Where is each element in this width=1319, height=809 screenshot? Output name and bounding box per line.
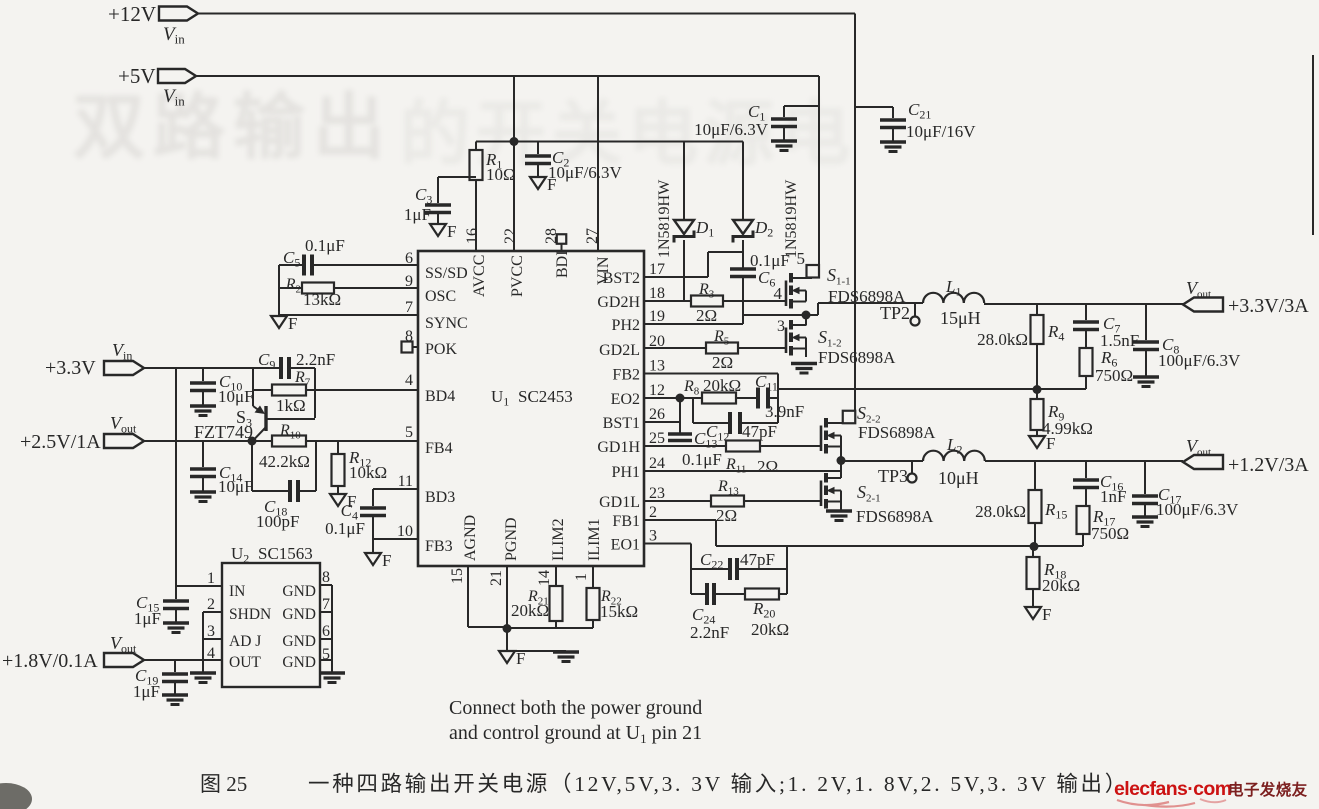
svg-text:SYNC: SYNC [425, 315, 468, 332]
svg-text:1N5819HW: 1N5819HW [783, 179, 800, 258]
svg-text:42.2kΩ: 42.2kΩ [259, 452, 310, 471]
svg-text:1N5819HW: 1N5819HW [656, 179, 673, 258]
svg-text:POK: POK [425, 341, 457, 358]
svg-text:4: 4 [405, 372, 413, 389]
svg-text:22: 22 [502, 228, 519, 244]
svg-text:19: 19 [649, 308, 665, 325]
svg-text:9: 9 [405, 273, 413, 290]
svg-text:SHDN: SHDN [229, 606, 271, 623]
svg-text:PVCC: PVCC [509, 255, 526, 297]
svg-text:BD3: BD3 [425, 489, 455, 506]
svg-text:3: 3 [207, 623, 215, 640]
svg-text:1μF: 1μF [133, 682, 160, 701]
svg-text:1nF: 1nF [1100, 487, 1126, 506]
svg-text:7: 7 [322, 596, 330, 613]
svg-text:FDS6898A: FDS6898A [856, 507, 934, 526]
svg-text:100μF/6.3V: 100μF/6.3V [1156, 500, 1239, 519]
svg-text:23: 23 [649, 485, 665, 502]
svg-text:2: 2 [649, 504, 657, 521]
svg-text:10: 10 [397, 523, 413, 540]
svg-text:FB1: FB1 [612, 513, 640, 530]
svg-text:GD1L: GD1L [599, 494, 640, 511]
svg-text:8: 8 [322, 569, 330, 586]
svg-text:图 25: 图 25 [200, 772, 247, 796]
svg-text:25: 25 [649, 430, 665, 447]
svg-text:BST1: BST1 [603, 415, 640, 432]
svg-text:10μF/6.3V: 10μF/6.3V [548, 163, 623, 182]
svg-text:12: 12 [649, 382, 665, 399]
svg-text:100μF/6.3V: 100μF/6.3V [1158, 351, 1241, 370]
svg-text:2Ω: 2Ω [757, 457, 778, 476]
svg-text:GD2L: GD2L [599, 342, 640, 359]
svg-text:+1.8V/0.1A: +1.8V/0.1A [2, 650, 98, 672]
svg-text:FZT749: FZT749 [194, 422, 253, 442]
svg-text:47pF: 47pF [740, 550, 775, 569]
svg-text:GND: GND [282, 633, 316, 650]
svg-text:BDI: BDI [554, 250, 571, 278]
svg-text:5: 5 [797, 249, 806, 268]
svg-text:TP3: TP3 [878, 466, 908, 486]
svg-text:BD4: BD4 [425, 388, 455, 405]
svg-text:10μF: 10μF [218, 387, 254, 406]
svg-text:3: 3 [777, 318, 785, 335]
svg-text:20kΩ: 20kΩ [511, 601, 549, 620]
svg-text:GND: GND [282, 606, 316, 623]
svg-text:ILIM1: ILIM1 [586, 518, 603, 561]
svg-text:2: 2 [207, 596, 215, 613]
svg-text:20: 20 [649, 333, 665, 350]
svg-text:10μF: 10μF [218, 477, 254, 496]
svg-text:11: 11 [398, 473, 413, 490]
svg-text:3: 3 [649, 528, 657, 545]
svg-text:5: 5 [322, 646, 330, 663]
svg-text:AVCC: AVCC [471, 255, 488, 297]
svg-text:47pF: 47pF [742, 422, 777, 441]
svg-text:OUT: OUT [229, 654, 261, 671]
svg-text:10μF/6.3V: 10μF/6.3V [694, 120, 769, 139]
svg-text:100pF: 100pF [256, 512, 299, 531]
svg-text:elecfans·com: elecfans·com [1114, 778, 1232, 800]
svg-text:FB3: FB3 [425, 538, 453, 555]
svg-text:10Ω: 10Ω [486, 165, 516, 184]
svg-text:FB2: FB2 [612, 367, 640, 384]
svg-text:+12V: +12V [108, 2, 156, 26]
svg-text:28.0kΩ: 28.0kΩ [975, 502, 1026, 521]
svg-text:GD1H: GD1H [597, 439, 640, 456]
svg-text:27: 27 [584, 228, 601, 244]
svg-text:18: 18 [649, 285, 665, 302]
svg-text:16: 16 [464, 228, 481, 244]
svg-text:3.9nF: 3.9nF [765, 402, 804, 421]
svg-text:一种四路输出开关电源（12V,5V,3. 3V 输入;1.: 一种四路输出开关电源（12V,5V,3. 3V 输入;1. 2V,1. 8V,2… [308, 772, 1129, 796]
svg-text:+1.2V/3A: +1.2V/3A [1228, 454, 1309, 476]
svg-text:2.2nF: 2.2nF [690, 623, 729, 642]
svg-text:750Ω: 750Ω [1095, 366, 1133, 385]
svg-text:24: 24 [649, 455, 665, 472]
svg-text:SC1563: SC1563 [258, 544, 313, 563]
svg-text:21: 21 [488, 570, 505, 586]
svg-text:2.2nF: 2.2nF [296, 350, 335, 369]
svg-text:双路输出: 双路输出 [73, 88, 393, 168]
svg-text:17: 17 [649, 261, 665, 278]
svg-text:and control ground at U1 pin 2: and control ground at U1 pin 21 [449, 722, 702, 746]
svg-text:2Ω: 2Ω [696, 306, 717, 325]
svg-text:F: F [1042, 605, 1051, 624]
svg-text:PH1: PH1 [612, 464, 640, 481]
svg-text:2Ω: 2Ω [712, 353, 733, 372]
svg-text:1μF: 1μF [134, 609, 161, 628]
svg-text:13: 13 [649, 358, 665, 375]
svg-text:PH2: PH2 [612, 317, 640, 334]
svg-text:1: 1 [207, 570, 215, 587]
svg-text:26: 26 [649, 406, 665, 423]
svg-text:FDS6898A: FDS6898A [818, 348, 896, 367]
svg-text:电子发烧友: 电子发烧友 [1228, 780, 1308, 799]
svg-text:+3.3V: +3.3V [45, 357, 96, 379]
svg-text:10μF/16V: 10μF/16V [906, 122, 976, 141]
svg-text:20kΩ: 20kΩ [751, 620, 789, 639]
svg-text:OSC: OSC [425, 288, 456, 305]
svg-text:GD2H: GD2H [597, 294, 640, 311]
svg-text:15μH: 15μH [940, 308, 981, 328]
svg-text:1μF: 1μF [404, 205, 431, 224]
svg-text:4.99kΩ: 4.99kΩ [1042, 419, 1093, 438]
svg-text:0.1μF: 0.1μF [305, 236, 345, 255]
svg-text:VIN: VIN [595, 256, 612, 285]
svg-text:AD J: AD J [229, 633, 261, 650]
svg-text:F: F [382, 551, 391, 570]
svg-text:10μH: 10μH [938, 468, 979, 488]
svg-text:IN: IN [229, 583, 245, 600]
svg-text:F: F [447, 222, 456, 241]
svg-text:6: 6 [405, 250, 413, 267]
svg-text:+3.3V/3A: +3.3V/3A [1228, 295, 1309, 317]
svg-text:EO1: EO1 [611, 537, 640, 554]
svg-text:20kΩ: 20kΩ [1042, 576, 1080, 595]
svg-text:FB4: FB4 [425, 440, 453, 457]
svg-text:GND: GND [282, 583, 316, 600]
svg-text:SC2453: SC2453 [518, 387, 573, 406]
svg-text:10kΩ: 10kΩ [349, 463, 387, 482]
svg-text:+2.5V/1A: +2.5V/1A [20, 431, 101, 453]
svg-text:0.1μF: 0.1μF [325, 519, 365, 538]
svg-text:PGND: PGND [503, 517, 520, 561]
svg-text:AGND: AGND [462, 515, 479, 561]
svg-text:0.1μF: 0.1μF [682, 450, 722, 469]
svg-text:13kΩ: 13kΩ [303, 290, 341, 309]
svg-text:1: 1 [573, 573, 590, 581]
svg-text:FDS6898A: FDS6898A [858, 423, 936, 442]
svg-text:8: 8 [405, 328, 413, 345]
svg-text:ILIM2: ILIM2 [550, 518, 567, 561]
svg-text:1kΩ: 1kΩ [276, 396, 306, 415]
svg-text:14: 14 [536, 570, 553, 586]
svg-text:+5V: +5V [118, 64, 156, 88]
svg-text:0.1μF: 0.1μF [750, 251, 790, 270]
svg-text:28.0kΩ: 28.0kΩ [977, 330, 1028, 349]
svg-text:GND: GND [282, 654, 316, 671]
svg-text:EO2: EO2 [611, 391, 640, 408]
svg-text:750Ω: 750Ω [1091, 524, 1129, 543]
svg-text:7: 7 [405, 299, 413, 316]
svg-text:SS/SD: SS/SD [425, 265, 468, 282]
svg-text:5: 5 [405, 424, 413, 441]
svg-text:TP2: TP2 [880, 303, 910, 323]
svg-text:15: 15 [449, 568, 466, 584]
svg-text:Connect both the power ground: Connect both the power ground [449, 697, 702, 719]
svg-text:2Ω: 2Ω [716, 506, 737, 525]
svg-text:15kΩ: 15kΩ [600, 602, 638, 621]
svg-text:6: 6 [322, 623, 330, 640]
svg-text:20kΩ: 20kΩ [703, 376, 741, 395]
svg-text:F: F [288, 314, 297, 333]
